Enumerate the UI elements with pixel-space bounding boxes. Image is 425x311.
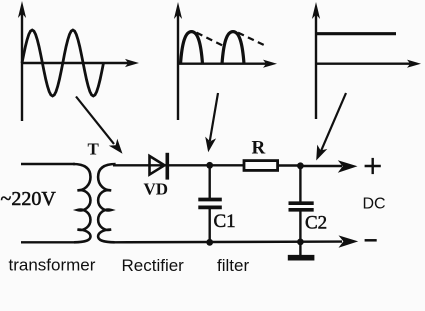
- input sine wave: [22, 30, 104, 96]
- decay dashed line 2: [238, 33, 265, 46]
- DC waveform y-axis: [312, 2, 320, 119]
- wire resistor to node B: [278, 164, 301, 166]
- svg-text:filter: filter: [217, 256, 249, 275]
- arrow from input waveform to transformer wire: [76, 97, 123, 154]
- arrow from rectified waveform to node A: [205, 93, 218, 152]
- transformer T primary winding: [73, 164, 91, 242]
- capacitor C1 top lead: [208, 165, 210, 198]
- svg-text:transformer: transformer: [9, 256, 96, 275]
- rectified pulse 1: [181, 32, 203, 64]
- node C1 bottom junction dot: [206, 239, 213, 246]
- wire node A to resistor R: [210, 164, 244, 166]
- arrow from DC waveform to node B: [316, 93, 346, 161]
- rectified pulse 2: [222, 32, 244, 64]
- svg-text:DC: DC: [363, 196, 386, 213]
- svg-text:C1: C1: [214, 211, 236, 232]
- svg-text:~220V: ~220V: [1, 188, 57, 210]
- rectified waveform y-axis: [174, 2, 182, 120]
- capacitor C2: [289, 203, 314, 210]
- ground stub: [299, 242, 301, 256]
- ground: [288, 255, 315, 261]
- label minus: [365, 239, 377, 242]
- svg-text:VD: VD: [144, 180, 169, 199]
- capacitor C1 bottom lead: [208, 209, 210, 242]
- transformer T primary bottom wire: [21, 241, 75, 243]
- node B junction dot: [297, 162, 304, 169]
- capacitor C2 bottom lead: [299, 211, 301, 242]
- diode VD: [150, 153, 168, 180]
- resistor R: [244, 161, 278, 171]
- capacitor C1: [198, 200, 222, 208]
- transformer T primary top wire: [21, 163, 75, 165]
- input waveform x-axis: [22, 59, 139, 67]
- svg-text:Rectifier: Rectifier: [122, 256, 185, 275]
- decay dashed line 1: [197, 33, 223, 46]
- transformer T secondary winding: [98, 164, 116, 242]
- svg-text:T: T: [88, 140, 100, 159]
- rectified waveform x-axis: [178, 60, 277, 68]
- bottom rail secondary to minus output: [113, 235, 358, 247]
- capacitor C2 top lead: [299, 166, 301, 202]
- node A junction dot: [206, 162, 213, 169]
- wire secondary top to node A: [113, 164, 210, 166]
- input waveform y-axis: [18, 1, 26, 121]
- DC waveform x-axis: [316, 60, 421, 68]
- svg-text:C2: C2: [305, 213, 327, 234]
- wire node B to plus output: [300, 160, 357, 172]
- svg-text:R: R: [252, 138, 266, 159]
- label plus: [365, 158, 381, 174]
- DC level line: [316, 32, 396, 35]
- node C2 bottom junction dot: [297, 239, 304, 246]
